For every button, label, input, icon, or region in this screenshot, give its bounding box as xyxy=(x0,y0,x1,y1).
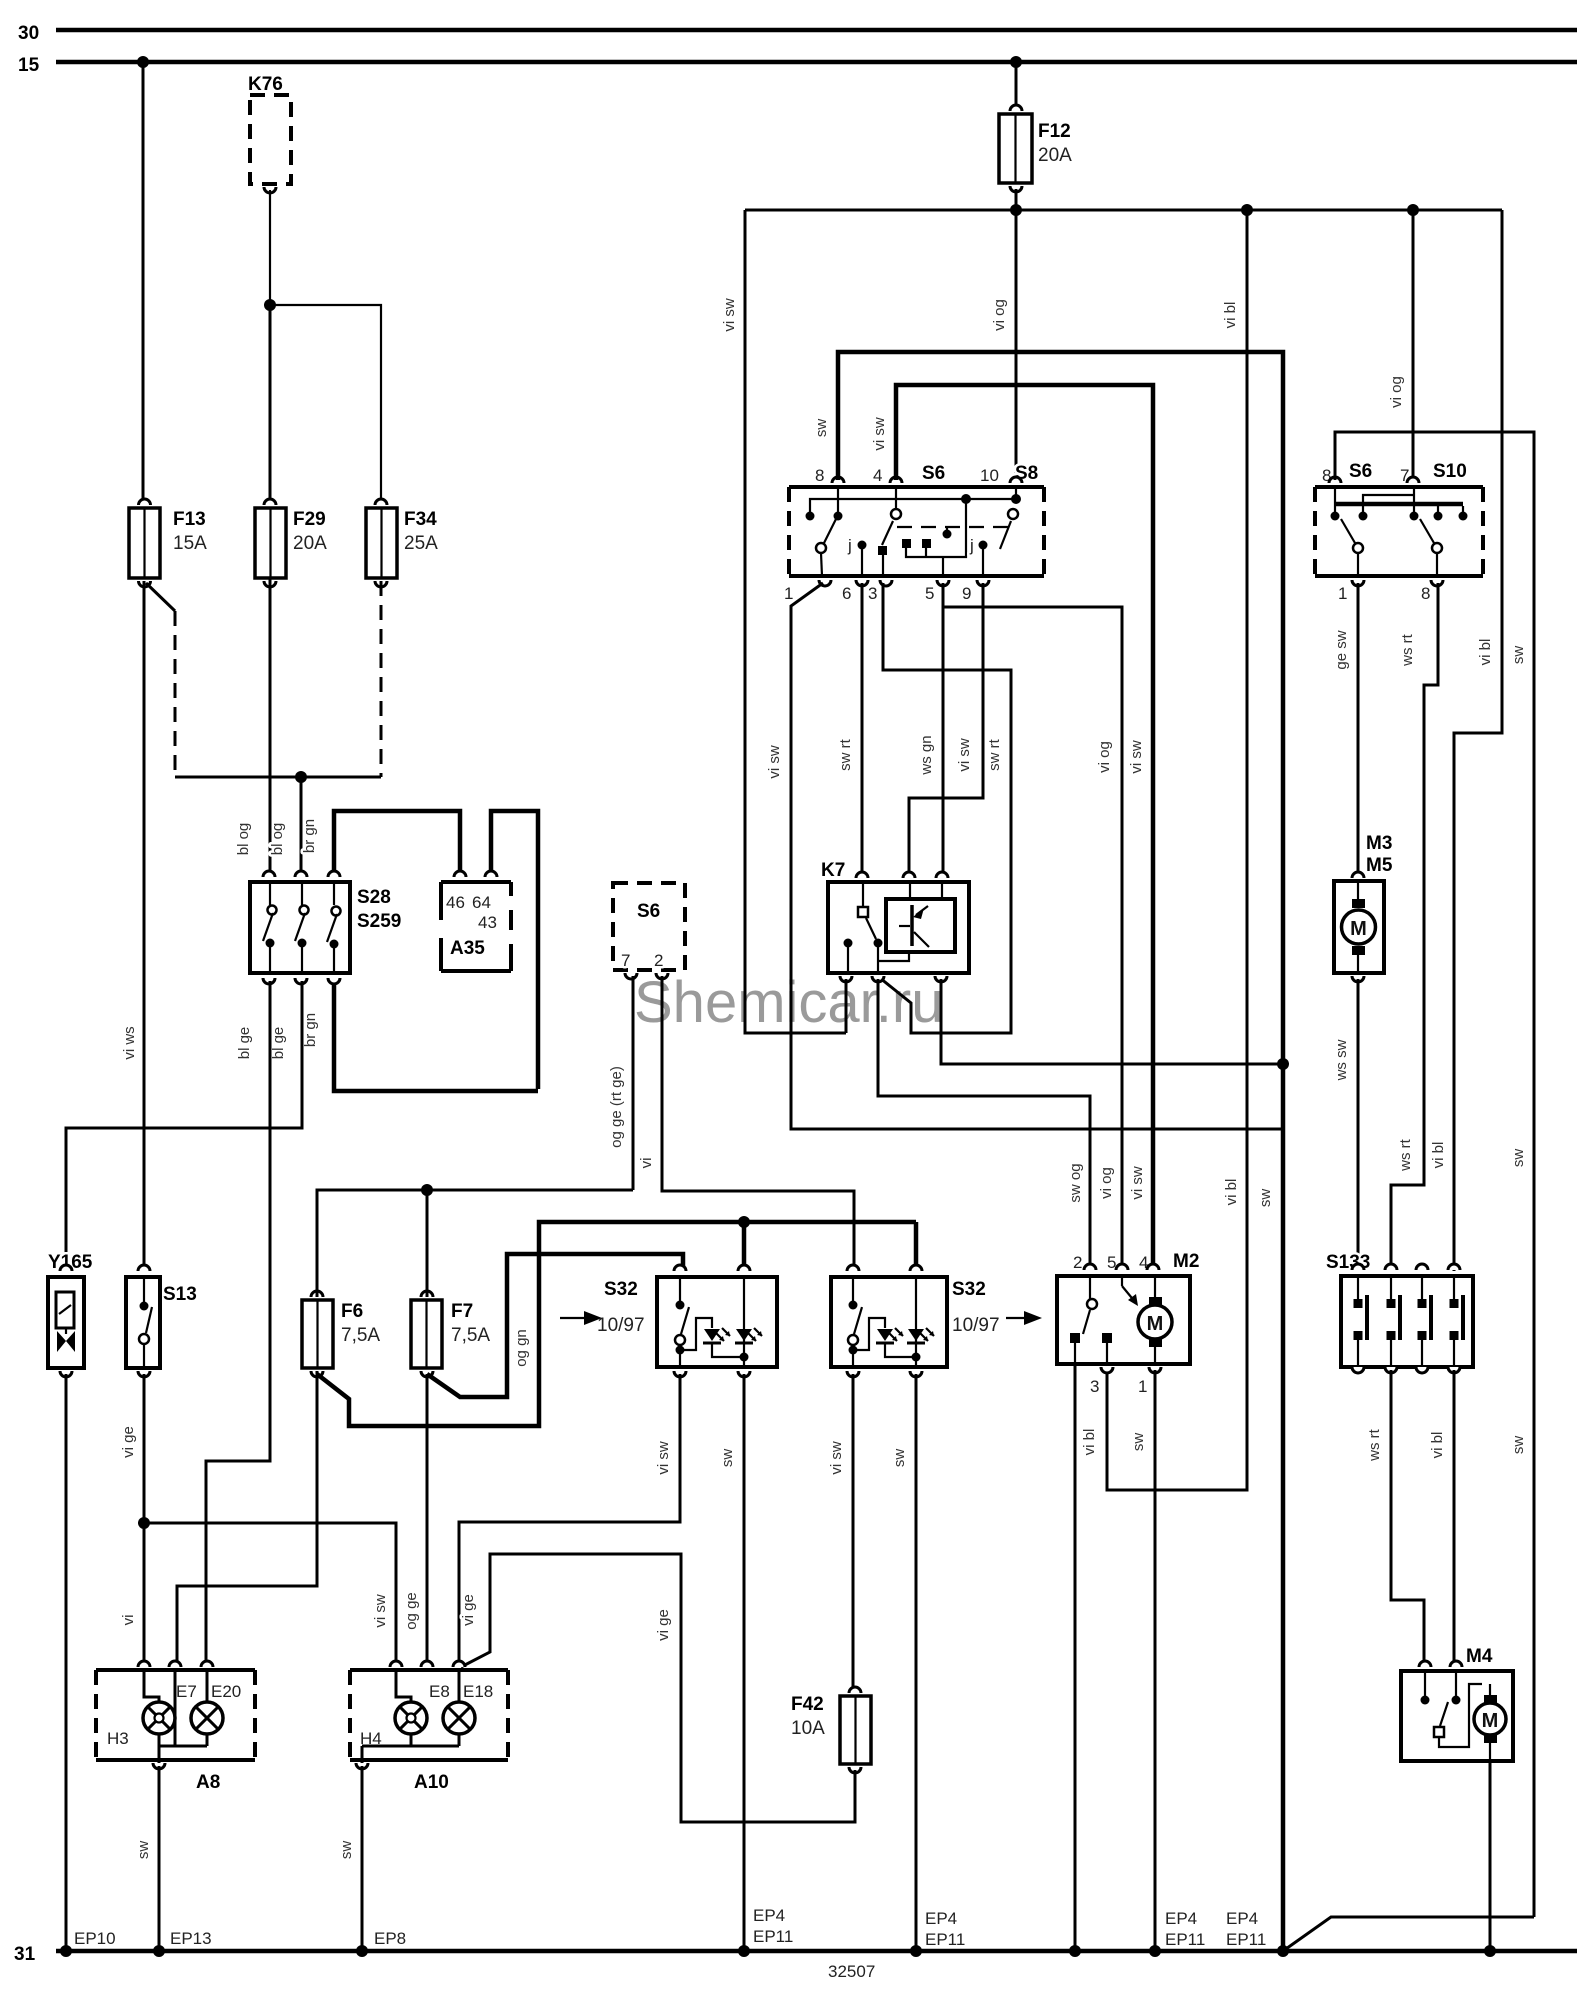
svg-text:sw: sw xyxy=(719,1449,736,1468)
wire node to F7 xyxy=(426,1190,429,1297)
wire F12 to S6/S8 pin10 (vi og) xyxy=(1015,210,1018,480)
wire to S32 right pin2 xyxy=(914,1222,919,1271)
wire F42 bottom to vi-ge chain xyxy=(461,1554,855,1822)
svg-text:F42: F42 xyxy=(791,1694,824,1715)
wire node to A10 pin1 xyxy=(144,1523,396,1664)
svg-text:F13: F13 xyxy=(173,509,206,530)
pressure switch S13 xyxy=(126,1265,197,1377)
svg-text:7,5A: 7,5A xyxy=(451,1325,490,1346)
wire S28 pin3 bottom down to corner xyxy=(334,981,538,1091)
svg-text:vi og: vi og xyxy=(1096,741,1113,773)
svg-text:sw: sw xyxy=(1510,1149,1527,1168)
svg-text:EP11: EP11 xyxy=(1165,1930,1205,1949)
fuse F34 25A xyxy=(366,499,438,587)
svg-text:vi bl: vi bl xyxy=(1430,1142,1447,1169)
svg-text:sw: sw xyxy=(1130,1433,1147,1452)
switch unit S6 / S10 xyxy=(1315,461,1483,603)
wire F7 bottom to A10 pin2 xyxy=(426,1374,429,1664)
wire A35 pin64 up over down to br-gn corner xyxy=(491,811,538,1089)
svg-text:og ge: og ge xyxy=(403,1592,420,1630)
bus 15 xyxy=(18,55,1577,76)
svg-text:M: M xyxy=(1147,1313,1164,1335)
rail under F12 xyxy=(745,209,1502,212)
wire F29 to S28 pin1 xyxy=(269,578,272,874)
wire S32 right pin2 bottom to bus31 xyxy=(915,1374,918,1951)
svg-text:S28: S28 xyxy=(357,887,391,908)
svg-text:vi sw: vi sw xyxy=(372,1594,389,1628)
svg-text:E20: E20 xyxy=(211,1682,241,1701)
motor M3 / M5 xyxy=(1334,833,1393,982)
svg-text:F7: F7 xyxy=(451,1301,473,1322)
fuse F13 15A xyxy=(129,499,207,587)
wire node to A8 H3 xyxy=(143,1523,146,1664)
svg-text:F34: F34 xyxy=(404,509,437,530)
svg-text:br gn: br gn xyxy=(302,1013,319,1047)
svg-text:vi sw: vi sw xyxy=(871,417,888,451)
wire joining dashed branches xyxy=(175,776,381,779)
wire S13 down to node xyxy=(143,1374,146,1523)
svg-text:br gn: br gn xyxy=(301,819,318,853)
svg-text:og gn: og gn xyxy=(513,1329,530,1367)
svg-text:8: 8 xyxy=(1421,584,1430,603)
wire S6/S8 pin8 up to sw line xyxy=(838,352,1283,1951)
svg-text:bl ge: bl ge xyxy=(236,1027,253,1060)
svg-text:EP13: EP13 xyxy=(170,1929,212,1948)
wire S133 pin4 bottom to M4 pin2 (vi bl) xyxy=(1453,1370,1456,1664)
svg-text:M3: M3 xyxy=(1366,833,1392,854)
svg-text:10/97: 10/97 xyxy=(952,1315,1000,1336)
svg-text:vi ge: vi ge xyxy=(655,1609,672,1641)
svg-text:A8: A8 xyxy=(196,1772,220,1793)
svg-text:vi og: vi og xyxy=(1098,1167,1115,1199)
wire S32 left pin1 bottom to A10 pin3 xyxy=(459,1374,680,1664)
svg-text:vi bl: vi bl xyxy=(1081,1429,1098,1456)
svg-text:20A: 20A xyxy=(1038,145,1072,166)
svg-text:10: 10 xyxy=(980,466,999,485)
svg-text:2: 2 xyxy=(1073,1253,1082,1272)
wire S28 pin1 bottom to A8 E-lamp xyxy=(206,981,270,1664)
svg-text:EP8: EP8 xyxy=(374,1929,406,1948)
wire S10 pin1 to M3/M5 (ge sw) xyxy=(1357,583,1360,875)
svg-text:20A: 20A xyxy=(293,533,327,554)
svg-text:2: 2 xyxy=(654,951,663,970)
svg-text:bl og: bl og xyxy=(235,823,252,856)
wire M2 left contact to bus31 xyxy=(1074,1364,1077,1951)
wire S6/S8 pin3 to K7 lower pin2 xyxy=(880,583,1011,1033)
svg-text:sw: sw xyxy=(1510,646,1527,665)
wire node to S28 pin2 xyxy=(300,777,303,874)
svg-text:4: 4 xyxy=(873,466,882,485)
svg-text:A10: A10 xyxy=(414,1772,449,1793)
wire S6/S8 pin5 to K7 pin3 xyxy=(942,583,945,875)
svg-text:Shemicar.ru: Shemicar.ru xyxy=(634,970,943,1035)
fuse F42 10A xyxy=(791,1687,871,1773)
svg-text:E8: E8 xyxy=(429,1682,450,1701)
svg-text:9: 9 xyxy=(962,584,971,603)
svg-text:sw: sw xyxy=(813,419,830,438)
svg-text:bl og: bl og xyxy=(269,823,286,856)
svg-text:ws rt: ws rt xyxy=(1399,633,1416,666)
lamp assembly A10 xyxy=(350,1661,508,1793)
wire K76 to node xyxy=(269,190,271,305)
wire S6/S8 pin1 over to sw line xyxy=(791,583,1283,1129)
node on bus 15 feeding F13 xyxy=(137,56,149,68)
svg-text:E7: E7 xyxy=(176,1682,197,1701)
svg-text:vi bl: vi bl xyxy=(1222,302,1239,329)
svg-text:vi bl: vi bl xyxy=(1429,1432,1446,1459)
wire F6/F7 top feed xyxy=(317,1190,633,1297)
wire F13 down to S13 xyxy=(143,581,146,1271)
svg-text:EP11: EP11 xyxy=(925,1930,965,1949)
svg-text:EP11: EP11 xyxy=(753,1927,793,1946)
fuse F6 7,5A xyxy=(302,1291,380,1377)
motor unit M2 xyxy=(1057,1251,1199,1396)
svg-text:sw: sw xyxy=(891,1449,908,1468)
svg-text:43: 43 xyxy=(478,913,497,932)
wire right sw line to bus31 diagonal xyxy=(1283,1917,1534,1951)
switch S32 (left) xyxy=(560,1265,777,1377)
fuse F7 7,5A xyxy=(411,1291,490,1377)
solenoid valve Y165 xyxy=(48,1252,93,1377)
svg-text:j: j xyxy=(969,536,974,555)
svg-text:46: 46 xyxy=(446,893,465,912)
svg-text:M: M xyxy=(1482,1710,1499,1732)
svg-text:M4: M4 xyxy=(1466,1646,1493,1667)
svg-text:7,5A: 7,5A xyxy=(341,1325,380,1346)
svg-text:F6: F6 xyxy=(341,1301,363,1322)
wire A10 to bus31 EP8 xyxy=(361,1766,364,1951)
bus 31 xyxy=(14,1944,1577,1965)
svg-text:S6: S6 xyxy=(922,463,945,484)
svg-text:S259: S259 xyxy=(357,911,401,932)
svg-text:ge sw: ge sw xyxy=(1333,630,1350,669)
node S13/A8 xyxy=(138,1517,150,1529)
node rail/vi-og xyxy=(1407,204,1419,216)
wire rail right end to vi-bl jog xyxy=(1454,210,1502,1271)
bridge pin5/pin9 to M2 pin5 (vi og) xyxy=(943,607,1122,1270)
svg-text:vi: vi xyxy=(638,1158,655,1169)
wire S6/S8 pin6 to K7 pin1 xyxy=(861,583,864,875)
wire F13 diagonal to dashed branch xyxy=(146,583,175,611)
svg-text:ws rt: ws rt xyxy=(1366,1428,1383,1461)
svg-text:10A: 10A xyxy=(791,1718,825,1739)
wire S6/S10 pin8 top to right sw line xyxy=(1335,432,1534,1917)
svg-text:A35: A35 xyxy=(450,938,485,959)
svg-text:EP4: EP4 xyxy=(1226,1909,1258,1928)
svg-text:sw: sw xyxy=(1510,1436,1527,1455)
wire S32 right pin1 bottom to F42 xyxy=(852,1374,855,1693)
svg-text:vi og: vi og xyxy=(991,299,1008,331)
svg-text:vi: vi xyxy=(120,1615,137,1626)
wire node to S32 left pin2 xyxy=(742,1222,747,1271)
svg-text:sw: sw xyxy=(338,1841,355,1860)
switch S32 (right) xyxy=(831,1265,1042,1377)
svg-text:K7: K7 xyxy=(821,860,845,881)
wire S6/S8 pin4 over to M2 pin4 (vi sw) xyxy=(896,385,1153,1270)
svg-text:vi sw: vi sw xyxy=(828,1441,845,1475)
wire S28 pin2 bottom to Y165 xyxy=(66,981,302,1271)
svg-text:sw: sw xyxy=(135,1841,152,1860)
svg-text:vi sw: vi sw xyxy=(956,738,973,772)
svg-text:30: 30 xyxy=(18,23,39,44)
node F7 top xyxy=(421,1184,433,1196)
svg-text:EP4: EP4 xyxy=(1165,1909,1197,1928)
svg-text:EP4: EP4 xyxy=(753,1906,785,1925)
relay K7 xyxy=(821,860,969,982)
wire node to F29 xyxy=(269,305,272,505)
svg-text:S10: S10 xyxy=(1433,461,1467,482)
switch pack S133 xyxy=(1326,1252,1473,1373)
svg-text:S13: S13 xyxy=(163,1284,197,1305)
wire bus15 to F13 xyxy=(142,62,145,505)
svg-text:S6: S6 xyxy=(1349,461,1372,482)
switch block S28 / S259 xyxy=(250,871,401,984)
node M4 xyxy=(1484,1945,1496,1957)
wire F12 to rail xyxy=(1015,189,1018,210)
motor unit M4 xyxy=(1401,1646,1513,1761)
switch unit S6 / S8 xyxy=(784,463,1044,603)
connector S6 (lower) xyxy=(613,883,685,979)
svg-text:10/97: 10/97 xyxy=(597,1315,645,1336)
svg-text:ws sw: ws sw xyxy=(1333,1039,1350,1081)
wire F7 bottom diagonal to S32 left pin1 xyxy=(427,1254,683,1397)
svg-text:og ge (rt ge): og ge (rt ge) xyxy=(608,1066,625,1148)
svg-text:vi sw: vi sw xyxy=(721,298,738,332)
svg-text:EP4: EP4 xyxy=(925,1909,957,1928)
node on sw line xyxy=(1277,1058,1289,1070)
svg-text:S6: S6 xyxy=(637,901,660,922)
svg-text:S32: S32 xyxy=(604,1279,638,1300)
node M2 pin1 xyxy=(1149,1945,1161,1957)
svg-text:bl ge: bl ge xyxy=(270,1027,287,1060)
svg-text:7: 7 xyxy=(621,951,630,970)
svg-text:3: 3 xyxy=(1090,1377,1099,1396)
svg-text:sw: sw xyxy=(1257,1189,1274,1208)
node EP4/EP11 left xyxy=(738,1945,750,1957)
ECU connector A35 xyxy=(441,871,511,971)
lamp assembly A8 xyxy=(96,1661,255,1793)
node sw line xyxy=(1277,1945,1289,1957)
wire Y165 to bus31 EP10 xyxy=(65,1374,68,1951)
wire S6/S8 pin9 to K7 pin2 xyxy=(909,583,983,875)
svg-text:S32: S32 xyxy=(952,1279,986,1300)
dashed wire F13 branch down xyxy=(174,611,177,777)
node S32 right xyxy=(910,1945,922,1957)
svg-text:31: 31 xyxy=(14,1944,36,1965)
svg-text:6: 6 xyxy=(842,584,851,603)
fuse F29 20A xyxy=(255,499,327,587)
svg-text:M: M xyxy=(1350,918,1367,940)
svg-text:E18: E18 xyxy=(463,1682,493,1701)
svg-text:1: 1 xyxy=(1138,1377,1147,1396)
svg-text:sw og: sw og xyxy=(1067,1163,1084,1202)
wire K7 pin1 bottom to vi-sw rail xyxy=(845,979,848,1033)
wire S6 pin7 down to F6/F7 feed xyxy=(632,976,635,1190)
svg-text:15: 15 xyxy=(18,55,40,76)
node on bus 15 feeding F12 xyxy=(1010,56,1022,68)
svg-text:1: 1 xyxy=(1338,584,1347,603)
node rail/F12 xyxy=(1010,204,1022,216)
svg-text:j: j xyxy=(847,536,852,555)
svg-text:M5: M5 xyxy=(1366,855,1393,876)
node S32 left pin2 feed xyxy=(738,1216,750,1228)
wire K7 pin3 bottom to sw line xyxy=(941,979,1283,1064)
node rail/vi-bl xyxy=(1241,204,1253,216)
wire rail to S10 pin7 (vi og) xyxy=(1412,210,1415,480)
wire M3/M5 to S133 pin1 (ws sw) xyxy=(1357,979,1360,1270)
wire bus15 to F12 xyxy=(1015,62,1018,111)
svg-text:vi sw: vi sw xyxy=(766,745,783,779)
wire rail to M2 pin3 (vi bl) xyxy=(1107,210,1247,1490)
svg-text:vi sw: vi sw xyxy=(655,1441,672,1475)
svg-text:sw rt: sw rt xyxy=(986,738,1003,770)
svg-text:EP11: EP11 xyxy=(1226,1930,1266,1949)
svg-text:25A: 25A xyxy=(404,533,438,554)
wire S32 left pin2 bottom to bus31 xyxy=(743,1374,746,1951)
svg-text:5: 5 xyxy=(925,584,934,603)
wire node to F34 branch xyxy=(270,305,381,505)
wire F6 bottom to A8 pin2 xyxy=(177,1371,317,1664)
svg-text:vi bl: vi bl xyxy=(1223,1179,1240,1206)
wire rail to K7 (vi sw) xyxy=(745,210,846,1033)
relay K76 (dashed outline) xyxy=(248,74,291,193)
node on joining wire xyxy=(295,771,307,783)
svg-text:vi sw: vi sw xyxy=(1128,740,1145,774)
node EP10 xyxy=(60,1945,72,1957)
svg-text:ws gn: ws gn xyxy=(918,735,935,775)
svg-text:8: 8 xyxy=(815,466,824,485)
wire S133 pin2 bottom to M4 pin1 (ws rt) xyxy=(1391,1370,1424,1664)
svg-text:vi sw: vi sw xyxy=(1129,1166,1146,1200)
svg-text:vi bl: vi bl xyxy=(1477,639,1494,666)
svg-text:sw rt: sw rt xyxy=(837,738,854,770)
node under K76 xyxy=(264,299,276,311)
svg-text:15A: 15A xyxy=(173,533,207,554)
svg-text:K76: K76 xyxy=(248,74,283,95)
fuse F12 20A xyxy=(999,105,1072,192)
svg-text:EP10: EP10 xyxy=(74,1929,116,1948)
svg-text:vi ge: vi ge xyxy=(460,1594,477,1626)
svg-text:3: 3 xyxy=(868,584,877,603)
wire S10 pin8 to S133 pin2 (ws rt) xyxy=(1391,583,1438,1270)
svg-text:F12: F12 xyxy=(1038,121,1071,142)
svg-text:vi ge: vi ge xyxy=(120,1426,137,1458)
svg-text:vi og: vi og xyxy=(1388,376,1405,408)
svg-text:ws rt: ws rt xyxy=(1397,1138,1414,1171)
svg-text:M2: M2 xyxy=(1173,1251,1199,1272)
svg-text:F29: F29 xyxy=(293,509,326,530)
svg-text:64: 64 xyxy=(472,893,491,912)
wire A8 to bus31 EP13 xyxy=(158,1766,161,1951)
svg-text:32507: 32507 xyxy=(828,1962,875,1981)
node EP8 xyxy=(356,1945,368,1957)
svg-text:1: 1 xyxy=(784,584,793,603)
svg-text:vi ws: vi ws xyxy=(121,1026,138,1059)
wire F6 bottom diagonal to S32 feed xyxy=(317,1222,916,1426)
bus 30 xyxy=(18,23,1577,44)
dashed wire F34 branch down xyxy=(380,581,383,777)
wire S6 pin2 down over to S32 right pin1 xyxy=(662,976,854,1271)
wire S28 pin3 up over to A35 pin46 xyxy=(334,811,460,874)
node M2 contact xyxy=(1069,1945,1081,1957)
wire K7 pin2 bottom to M2 pin2 (sw og) xyxy=(878,979,1090,1270)
svg-text:H3: H3 xyxy=(107,1729,129,1748)
wire M2 pin1 to bus31 (sw) xyxy=(1154,1370,1157,1951)
node EP13 xyxy=(153,1945,165,1957)
wire M4 to bus31 xyxy=(1489,1761,1492,1951)
